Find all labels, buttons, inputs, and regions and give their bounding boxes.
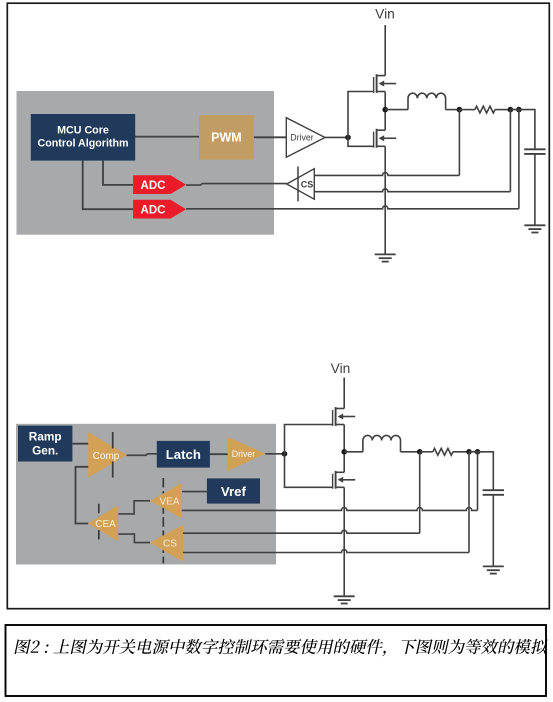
node B (after R1)	[508, 107, 514, 113]
ground G4 (output cap, bottom)	[483, 566, 504, 573]
dashed compensation boundary line (CEA)	[98, 504, 100, 543]
svg-text:Ramp: Ramp	[29, 430, 62, 444]
transistor Q1 (high-side, top diagram)	[374, 74, 397, 93]
wire Q4 source to ground	[343, 487, 345, 596]
wire Vout sense to VEA	[182, 507, 478, 510]
wire R1 to node B	[495, 109, 510, 111]
transistor Q3 (high-side, bottom diagram)	[333, 407, 356, 426]
node F (output, bottom)	[475, 449, 481, 455]
wire node A sense drop	[458, 110, 460, 176]
node E (after R2)	[466, 449, 472, 455]
ground G2 (output cap, top)	[524, 225, 545, 232]
analog control gray block background	[16, 424, 276, 565]
wire R2 to node E	[453, 451, 469, 453]
wire Vin (bottom)	[343, 378, 345, 409]
wire node C to cap C1	[510, 110, 535, 150]
svg-text:Vin: Vin	[331, 361, 351, 376]
svg-text:Gen.: Gen.	[32, 444, 58, 458]
current error amp CEA	[88, 505, 118, 541]
digital control gray block background	[17, 91, 275, 235]
inductor L2	[363, 435, 401, 451]
wire Comp to Latch (with jog)	[127, 454, 157, 456]
svg-text:Driver: Driver	[290, 133, 314, 143]
wire ADC1 to CS output (with jog)	[186, 184, 287, 186]
ADC 1 block	[133, 175, 186, 194]
wire node C voltage sense drop	[518, 110, 520, 209]
node driver-gate junction (top)	[345, 135, 351, 141]
wire C1 to ground	[534, 154, 536, 225]
PWM block	[199, 115, 254, 160]
caption box	[6, 625, 547, 696]
wire node D to R2	[420, 451, 433, 453]
ADC 2 block	[133, 200, 186, 219]
wire switch node to inductor (bottom)	[344, 451, 363, 453]
wire Vout sense line to ADC2	[186, 206, 519, 209]
svg-text:Latch: Latch	[166, 447, 201, 462]
node switch node (top)	[382, 107, 388, 113]
wire node F voltage sense drop	[477, 452, 479, 511]
dashed compensation boundary line (VEA/CS)	[162, 478, 164, 564]
wire MCU to PWM	[135, 136, 199, 138]
wire inductor to node A	[446, 109, 460, 111]
current sense comparator CS	[287, 169, 315, 200]
wire CEA output to Comp input	[76, 467, 89, 524]
node switch node (bottom)	[341, 449, 347, 455]
wire PWM to Driver	[254, 136, 286, 138]
svg-text:CS: CS	[301, 180, 314, 190]
svg-text:Vref: Vref	[221, 484, 247, 499]
wire VEA to Vref	[182, 491, 207, 493]
capacitor C2	[483, 490, 504, 495]
node driver-gate junction (bottom)	[282, 451, 288, 457]
transistor Q4 (low-side, bottom diagram)	[333, 471, 356, 489]
Latch block	[157, 441, 210, 468]
svg-text:ADC: ADC	[141, 204, 166, 216]
MCU Core Control Algorithm block	[31, 114, 135, 161]
voltage error amp VEA	[150, 483, 182, 518]
svg-text:Comp: Comp	[93, 451, 120, 462]
wire switch node to inductor	[385, 109, 408, 111]
Ramp Gen block	[18, 426, 72, 462]
wire gate bus (bottom diagram)	[285, 425, 334, 488]
svg-text:PWM: PWM	[211, 131, 242, 145]
ground G3 (bottom diagram main)	[334, 596, 355, 603]
ground G1 (top diagram main)	[375, 254, 396, 261]
wire node F to cap C2	[469, 452, 493, 490]
svg-text:ADC: ADC	[141, 180, 166, 192]
Vref block	[207, 478, 260, 503]
wire gate bus (top diagram)	[348, 92, 374, 147]
svg-text:VEA: VEA	[159, 497, 179, 508]
svg-text:CEA: CEA	[95, 519, 116, 530]
svg-text:Driver: Driver	[232, 449, 256, 459]
wire CS- sense (bottom)	[183, 550, 469, 553]
wire CS+ sense line (top)	[314, 172, 459, 175]
inductor L1	[408, 93, 446, 109]
wire VEA output to CEA input	[118, 501, 150, 514]
gate driver U1	[286, 118, 325, 158]
wire CS- sense line (top)	[314, 189, 510, 192]
node C (output, top)	[516, 107, 522, 113]
svg-text:MCU Core: MCU Core	[57, 125, 109, 137]
wire node D sense drop	[419, 452, 421, 533]
resistor R1	[475, 106, 495, 113]
caption text 图2	[15, 639, 548, 656]
capacitor C1	[524, 149, 545, 154]
wire C2 to ground	[492, 495, 494, 567]
wire Q3 source to switch node to Q4 drain	[343, 425, 345, 473]
wire driver output	[325, 136, 348, 138]
svg-text:Control Algorithm: Control Algorithm	[37, 138, 128, 150]
node D (inductor output, bottom)	[417, 449, 423, 455]
node A (inductor output, top)	[457, 107, 463, 113]
wire Latch to Driver	[210, 453, 228, 455]
wire inductor to node D	[401, 451, 420, 453]
wire node E sense drop	[468, 452, 470, 553]
wire driver output (bottom)	[265, 453, 284, 455]
wire CS+ sense (bottom)	[183, 530, 420, 533]
svg-text:CS: CS	[163, 538, 177, 549]
driver U2 (analog diagram)	[228, 437, 265, 471]
comparator Comp	[88, 432, 127, 478]
wire MCU to ADC1	[103, 161, 133, 185]
transistor Q2 (low-side, top diagram)	[374, 129, 397, 148]
wire Q2 source to ground	[384, 146, 386, 254]
wire MCU to ADC2	[83, 161, 133, 210]
wire CS output to CEA input	[118, 534, 150, 543]
wire Vin	[384, 25, 386, 76]
wire node A to R1	[459, 109, 475, 111]
svg-text:Vin: Vin	[375, 7, 395, 22]
wire node B sense drop	[509, 110, 511, 192]
wire Q1 source to switch node to Q2 drain	[384, 92, 386, 131]
current sense amp CS (analog)	[150, 525, 183, 562]
wire Ramp Gen to Comp	[72, 443, 88, 445]
resistor R2	[433, 448, 453, 455]
